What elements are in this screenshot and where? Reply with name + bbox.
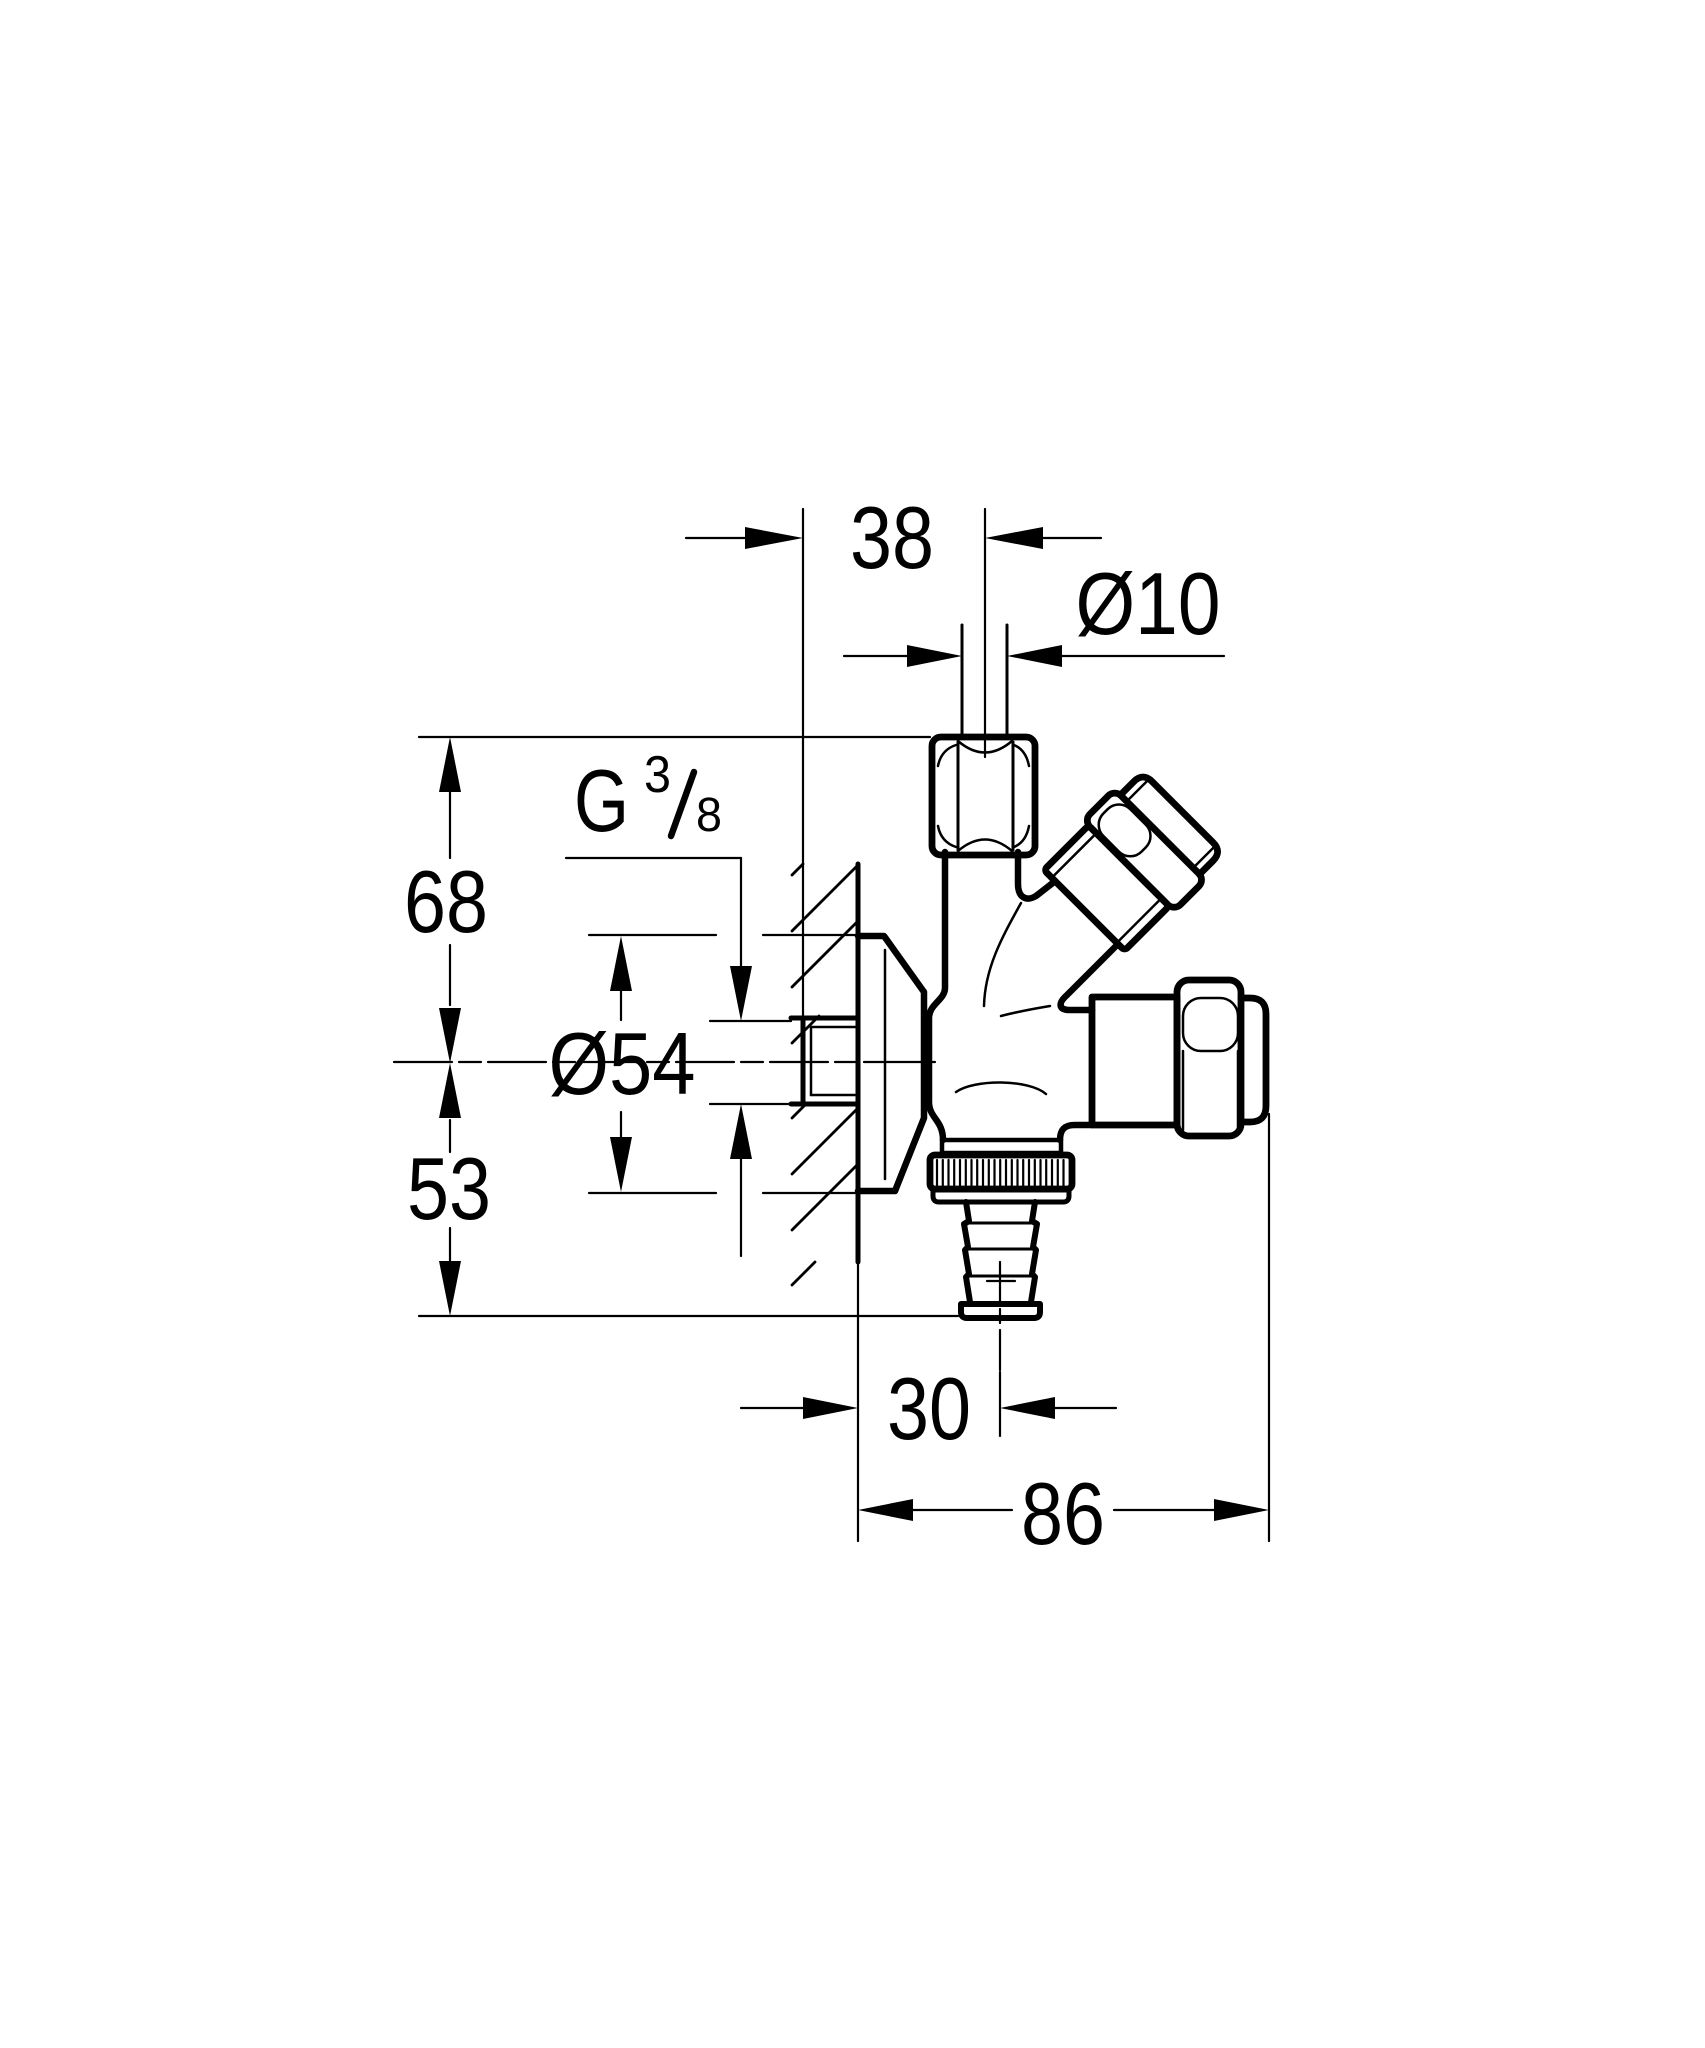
svg-text:30: 30 [887,1359,971,1458]
45 degree outlet union nut assembly [1039,767,1228,956]
hose barb outlet [961,1202,1040,1318]
dimension Ø54 [589,935,856,1193]
wall flange escutcheon [858,936,924,1191]
wall hatching [792,864,857,1285]
arrowhead 53 top / centerline [439,1063,461,1118]
dimension Ø10 [844,655,1224,657]
arrowhead 68 bottom / centerline [439,1008,461,1063]
svg-text:G: G [574,751,629,850]
arrowhead 53 bottom [439,1261,461,1316]
riser tube Ø10 [962,625,1007,737]
G 3/8 leader and thread dimension [566,858,791,1256]
arrowhead 86 left [858,1499,913,1521]
svg-text:86: 86 [1021,1464,1105,1563]
svg-text:3: 3 [644,746,671,804]
dimension 86 [913,1114,1269,1541]
arrowhead G3/8 up [730,1104,752,1159]
threaded pipe G3/8 in wall [791,1018,858,1104]
arrowhead 30 right [1000,1397,1055,1419]
arrowhead 68 top [439,737,461,792]
arrowhead G3/8 leader down [730,966,752,1021]
arrowhead 30 left [803,1397,858,1419]
svg-text:68: 68 [404,852,488,951]
top compression nut [932,737,1035,855]
valve body inner contour curves [956,903,1050,1094]
arrowhead Ø54 bottom [610,1137,632,1192]
arrowhead 86 right [1214,1499,1269,1521]
svg-text:38: 38 [850,488,934,587]
valve body [929,852,1117,1140]
horizontal centerline [394,1061,935,1063]
extension line barb center [999,1372,1001,1436]
knurled hose union nut [930,1140,1072,1202]
fraction slash of G 3/8 [671,772,694,836]
svg-text:53: 53 [407,1139,491,1238]
arrowhead Ø10 right [1007,645,1062,667]
arrowhead Ø10 left [907,645,962,667]
dimension 38 [686,509,1101,1016]
svg-text:8: 8 [696,789,722,842]
arrowhead Ø54 top [610,936,632,991]
dimension 30 [741,1262,1116,1541]
dimension 68 / 53 vertical chain [419,737,958,1316]
dimension texts [404,488,1221,1563]
barb centre mark cross [987,1280,1015,1282]
horizontal outlet nut assembly [1092,980,1266,1136]
wall face line [856,864,861,1262]
arrowhead 38 left [745,527,803,549]
barb vertical centerline [999,1262,1001,1372]
svg-text:Ø54: Ø54 [549,1014,696,1113]
svg-text:Ø10: Ø10 [1076,554,1221,653]
arrowhead 38 right [985,527,1043,549]
